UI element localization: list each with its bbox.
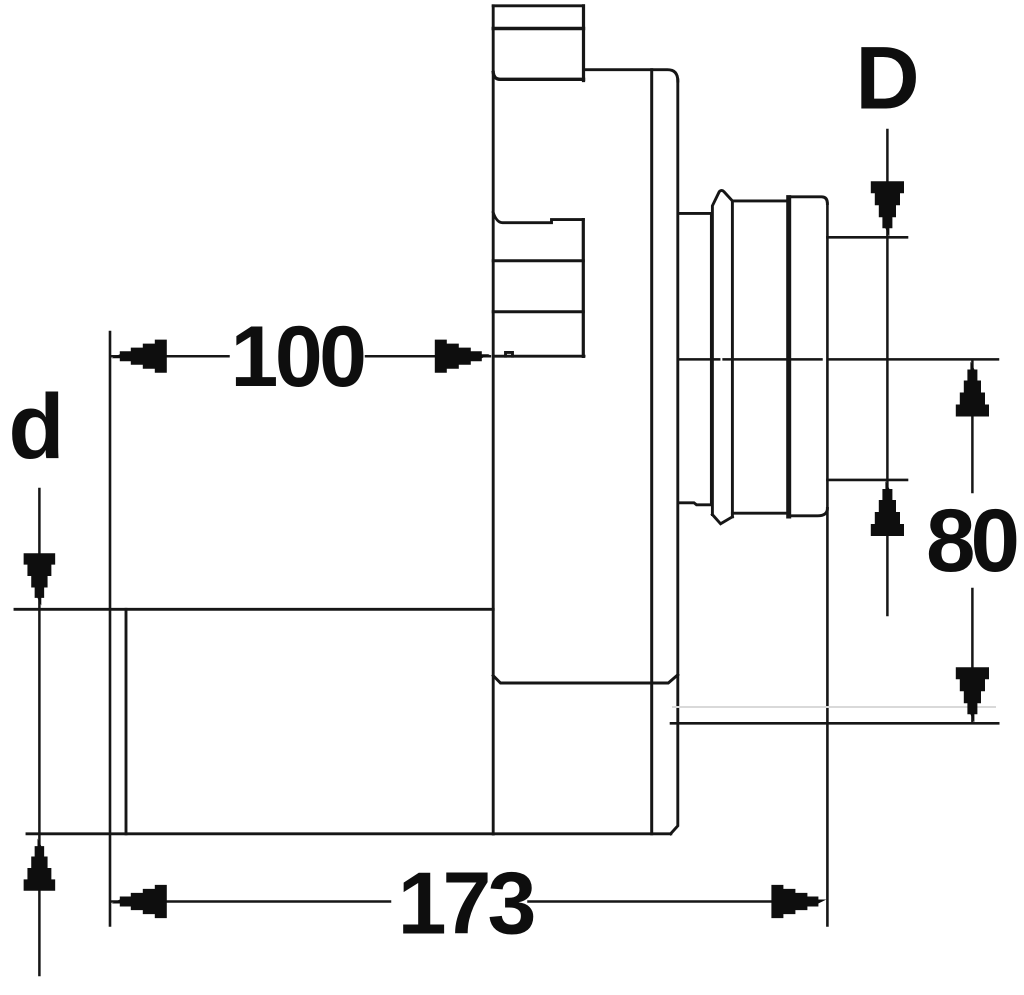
top mounting lug interior line <box>493 27 583 30</box>
dimension 100 line left segment <box>112 355 229 358</box>
regulator block bottom edge <box>493 355 584 358</box>
regulator block interior line 1 <box>493 259 583 262</box>
top mounting lug right edge <box>582 6 585 81</box>
housing left edge <box>492 6 495 834</box>
regulator block right edge <box>582 220 585 357</box>
housing top edge with rounded corner <box>584 70 678 81</box>
pulley rear flange bottom edge with rounded corner <box>791 509 827 516</box>
faint scan artifact line <box>673 706 995 708</box>
pulley web thick line <box>786 198 791 516</box>
front bracket outer vertical edge with bottom chamfer <box>671 80 678 834</box>
arrowhead 100 left <box>112 340 167 373</box>
regulator block bottom edge nub <box>506 352 513 356</box>
arrowhead 100 right <box>435 340 490 373</box>
arrowhead d down <box>24 553 56 605</box>
top mounting lug top edge <box>493 4 583 7</box>
shaft step top edge <box>680 212 711 215</box>
pulley rear flange top edge with rounded corner <box>791 197 827 204</box>
svg-text:80: 80 <box>926 490 1016 590</box>
dimension d vertical line <box>38 489 41 975</box>
left extension line for 100 and 173 <box>109 332 112 926</box>
arrowhead 173 right <box>771 885 826 918</box>
dimension 173 line right segment <box>529 900 771 903</box>
dimension 173 line left segment <box>112 900 390 903</box>
top mounting lug bottom edge <box>493 73 583 80</box>
pulley groove bottom edge <box>732 512 786 515</box>
front bracket inner vertical edge <box>650 70 653 834</box>
dimension D vertical line <box>886 130 889 615</box>
shaft diameter D reference line top <box>827 236 907 239</box>
arrowhead 173 left <box>112 885 167 918</box>
dimension 80 vertical line upper segment <box>971 361 974 492</box>
pulley rear face and 173 extension line <box>826 204 829 926</box>
arrowhead D down <box>871 181 904 236</box>
mounting boss top edge, d reference line <box>15 608 493 611</box>
housing bottom edge <box>27 832 671 835</box>
center axis line <box>679 358 998 361</box>
arrowhead 80 down <box>956 667 989 722</box>
dimension 80 vertical line lower segment <box>971 589 974 723</box>
svg-text:173: 173 <box>398 854 534 953</box>
mounting boss left edge <box>125 609 128 834</box>
regulator block interior line 2 <box>493 310 583 313</box>
regulator block top edge with step <box>493 213 583 223</box>
arrowhead D up <box>871 481 904 536</box>
arrowhead 80 up <box>956 362 989 417</box>
pulley front rim outline <box>712 190 732 516</box>
shaft diameter D reference line bottom <box>827 479 907 482</box>
svg-text:100: 100 <box>231 309 365 405</box>
dimension 100 line right segment <box>366 355 490 358</box>
svg-text:D: D <box>855 28 919 128</box>
stator waist line with end chamfers <box>493 675 678 683</box>
arrowhead d up <box>24 839 56 891</box>
svg-text:d: d <box>8 376 64 478</box>
80 reference bottom line <box>671 722 998 725</box>
shaft step bottom edge with jog <box>680 503 711 505</box>
pulley groove top edge <box>732 199 786 202</box>
pulley front rim bottom point <box>712 515 732 524</box>
shaft step right edge <box>710 213 713 504</box>
